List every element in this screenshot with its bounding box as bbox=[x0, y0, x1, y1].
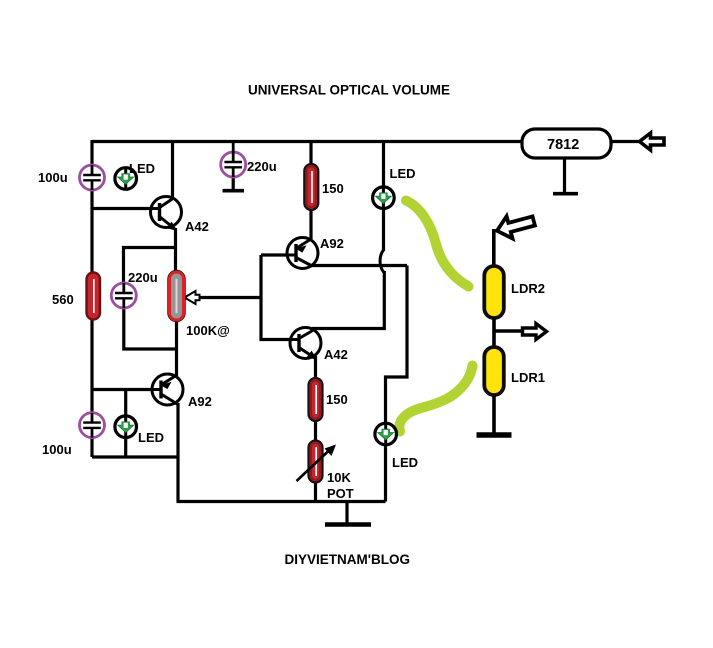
wire regulator U1 output bbox=[611, 140, 640, 143]
wire junction between LDRs to block arrow bbox=[494, 329, 521, 333]
svg-text:LED: LED bbox=[390, 166, 416, 181]
wire feedback box left side bbox=[261, 255, 291, 340]
regulator U1 7812 box bbox=[522, 129, 611, 158]
svg-text:A92: A92 bbox=[320, 236, 344, 251]
svg-text:A92: A92 bbox=[188, 394, 212, 409]
wire collector of Q4 down to bottom rail bbox=[176, 403, 179, 502]
svg-text:POT: POT bbox=[327, 486, 354, 501]
transistor Q3 A42 NPN bbox=[290, 328, 321, 360]
wire arrow to LDR2 bbox=[492, 229, 496, 267]
LDR2 photoresistor bbox=[484, 266, 504, 318]
svg-text:A42: A42 bbox=[324, 347, 348, 362]
LED D4 bottom middle bbox=[375, 423, 397, 445]
ground symbol under capacitor C2 220u bbox=[223, 176, 245, 191]
wire resistor R3 to pot VR2 10K bbox=[314, 420, 317, 441]
wire resistor R2 to emitter of Q2 bbox=[309, 209, 312, 239]
ground symbol middle bottom bbox=[325, 502, 371, 525]
wire node down to LED D4 bbox=[386, 266, 408, 426]
wire lower-left rail bbox=[92, 455, 178, 458]
svg-text:100u: 100u bbox=[38, 170, 68, 185]
wire LDR1 to ground bbox=[492, 394, 496, 433]
pot VR2 10K bbox=[297, 441, 337, 483]
green light beam from LED D3 to LDR2 bbox=[406, 201, 469, 287]
wire collector of Q2 to node over LED D3 bbox=[310, 264, 407, 267]
svg-text:220u: 220u bbox=[247, 159, 277, 174]
wire top rail (V+ net) bbox=[92, 140, 521, 143]
wire pot VR1 bottom to emitter of Q4 bbox=[175, 318, 178, 377]
transistor Q1 A42 NPN bbox=[151, 197, 182, 231]
wire LED D2 branch bbox=[124, 390, 127, 458]
green light beam from LED D4 to LDR1 bbox=[399, 366, 472, 432]
resistor R2 150 bbox=[304, 164, 318, 210]
LED D3 top middle bbox=[373, 187, 395, 209]
wire hop continue to collector of Q3 bbox=[314, 271, 385, 332]
capacitor C2 220u bbox=[221, 142, 246, 178]
svg-text:100u: 100u bbox=[42, 442, 72, 457]
wire pot VR2 to bottom rail bbox=[314, 481, 317, 502]
LED D1 top left bbox=[115, 168, 137, 190]
svg-text:LED: LED bbox=[392, 455, 418, 470]
LED D2 bottom left bbox=[115, 416, 137, 438]
capacitor C1 100u bbox=[80, 165, 105, 190]
ground symbol under regulator U1 bbox=[553, 158, 578, 194]
wire base of Q1 bbox=[92, 207, 152, 210]
resistor R3 150 bbox=[309, 378, 323, 421]
transistor Q4 A92 PNP bbox=[152, 374, 183, 405]
wire branch to C3 220u bbox=[124, 248, 176, 285]
wire base of Q2 bbox=[261, 253, 288, 256]
pot VR1 100K bbox=[168, 271, 185, 322]
svg-text:7812: 7812 bbox=[547, 137, 579, 153]
svg-text:150: 150 bbox=[322, 181, 344, 196]
wire top rail to resistor R2 150 bbox=[309, 142, 312, 166]
svg-text:UNIVERSAL OPTICAL VOLUME: UNIVERSAL OPTICAL VOLUME bbox=[248, 83, 450, 98]
wire wiper of pot VR1 bbox=[194, 296, 261, 299]
block arrow above LDR2 bbox=[494, 210, 537, 242]
wire base of Q4 bbox=[92, 388, 152, 391]
capacitor C3 220u bbox=[111, 283, 136, 308]
svg-text:10K: 10K bbox=[327, 470, 351, 485]
svg-text:LED: LED bbox=[129, 161, 155, 176]
resistor R1 560 bbox=[87, 273, 101, 320]
svg-text:DIYVIETNAM'BLOG: DIYVIETNAM'BLOG bbox=[285, 552, 410, 567]
svg-text:LED: LED bbox=[138, 430, 164, 445]
wire LED D4 to bottom rail bbox=[384, 443, 387, 502]
wire top rail through LED D3 bbox=[382, 142, 385, 189]
wire emitter of Q1 down to pot VR1 bbox=[174, 228, 177, 273]
ground symbol under LDR1 bbox=[477, 432, 512, 437]
svg-text:220u: 220u bbox=[128, 270, 158, 285]
svg-text:560: 560 bbox=[52, 292, 74, 307]
svg-text:LDR2: LDR2 bbox=[511, 281, 545, 296]
block arrow at regulator output bbox=[640, 133, 665, 150]
block arrow output at LDR junction bbox=[523, 324, 547, 340]
wire left rail bbox=[90, 140, 93, 457]
svg-text:150: 150 bbox=[326, 392, 348, 407]
wire emitter of Q3 to resistor R3 150 bbox=[314, 356, 317, 379]
svg-text:LDR1: LDR1 bbox=[511, 370, 545, 385]
svg-text:A42: A42 bbox=[185, 219, 209, 234]
capacitor C4 100u bbox=[80, 413, 105, 438]
transistor Q2 A92 PNP bbox=[287, 238, 318, 269]
wire LED D3 down to hop bbox=[382, 207, 385, 251]
arrowhead wiper of pot VR1 bbox=[185, 291, 200, 304]
LDR1 photoresistor bbox=[484, 347, 504, 395]
wire C3 bottom to pot VR1 bottom bbox=[124, 306, 177, 349]
svg-text:100K@: 100K@ bbox=[186, 323, 230, 338]
wire LDR2 to LDR1 bbox=[492, 317, 496, 348]
wire bottom rail (ground net) bbox=[177, 500, 386, 503]
wire hop over collector wire bbox=[380, 250, 384, 273]
wire collector of Q1 to top rail bbox=[171, 142, 174, 201]
